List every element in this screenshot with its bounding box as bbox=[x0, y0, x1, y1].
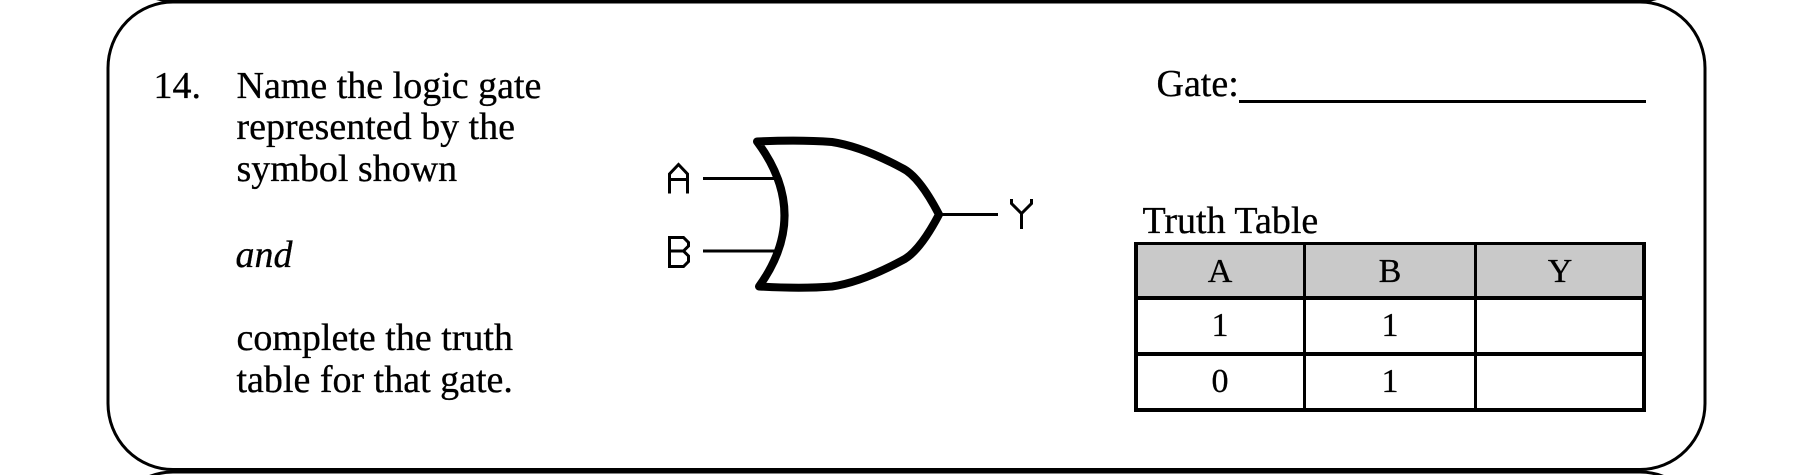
wire output Y bbox=[939, 213, 998, 216]
left border bbox=[1134, 242, 1138, 412]
node B label bbox=[670, 238, 689, 267]
closing text bbox=[237, 317, 513, 401]
top border bbox=[1134, 242, 1647, 245]
column divider 1 bbox=[1303, 242, 1306, 412]
right border bbox=[1642, 242, 1646, 412]
row 1 values bbox=[1135, 309, 1305, 343]
Gate: caption bbox=[1157, 65, 1239, 103]
header separator bbox=[1134, 296, 1647, 300]
node A label bbox=[670, 165, 688, 194]
row 2 values bbox=[1135, 365, 1305, 399]
answer blank line bbox=[1239, 100, 1646, 103]
Truth Table caption bbox=[1143, 202, 1319, 240]
node Y label bbox=[1012, 199, 1032, 229]
header row fill bbox=[1138, 245, 1642, 296]
column divider 2 bbox=[1474, 242, 1477, 412]
bottom border bbox=[1134, 408, 1647, 412]
or-gate U1 bbox=[757, 141, 939, 288]
question text block bbox=[237, 66, 542, 191]
wire input B bbox=[703, 250, 777, 253]
italic and bbox=[236, 235, 293, 277]
wire input A bbox=[703, 177, 778, 180]
question number bbox=[154, 66, 202, 108]
row separator bbox=[1134, 352, 1647, 356]
header letters bbox=[1135, 255, 1305, 289]
truth table bbox=[1134, 242, 1647, 412]
